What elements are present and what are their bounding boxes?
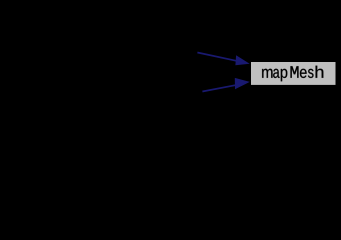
node mapMesh: box [251,62,336,85]
node mapMesh: label [262,66,323,82]
arrowhead: caller edge 1 (upper) [235,55,249,65]
arrowhead: caller edge 2 (lower) [235,78,250,89]
wire: caller edge 2 (lower) shaft [202,85,237,92]
wire: caller edge 1 (upper) shaft [197,53,237,62]
